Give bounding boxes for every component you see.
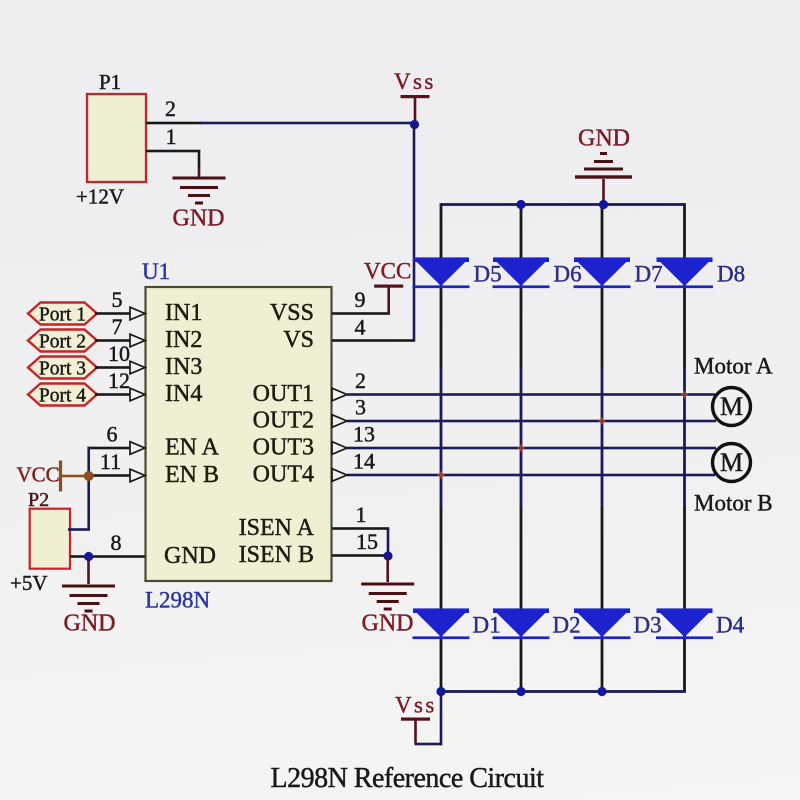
svg-text:Port 2: Port 2: [39, 332, 86, 353]
svg-text:9: 9: [355, 287, 366, 312]
svg-text:3: 3: [355, 395, 366, 420]
svg-text:IN2: IN2: [165, 327, 202, 353]
svg-text:D5: D5: [474, 262, 502, 287]
svg-text:U1: U1: [142, 259, 170, 284]
svg-text:OUT4: OUT4: [253, 462, 314, 488]
svg-text:M: M: [720, 448, 743, 477]
svg-text:D7: D7: [635, 262, 663, 287]
svg-text:OUT2: OUT2: [253, 408, 314, 434]
svg-text:8: 8: [111, 530, 122, 555]
svg-text:14: 14: [353, 449, 375, 474]
svg-text:IN1: IN1: [165, 300, 202, 326]
svg-text:M: M: [720, 392, 743, 421]
svg-text:Port 4: Port 4: [39, 386, 86, 407]
svg-text:10: 10: [108, 341, 130, 366]
svg-text:13: 13: [353, 422, 375, 447]
svg-text:2: 2: [355, 368, 366, 393]
svg-text:Port 3: Port 3: [39, 359, 86, 380]
svg-text:D3: D3: [634, 613, 662, 638]
svg-text:15: 15: [356, 529, 378, 554]
svg-text:Vss: Vss: [394, 69, 436, 94]
svg-text:L298N Reference Circuit: L298N Reference Circuit: [270, 763, 544, 794]
svg-text:VCC: VCC: [364, 259, 411, 284]
svg-text:Port 1: Port 1: [39, 305, 86, 326]
svg-text:+12V: +12V: [76, 185, 124, 209]
svg-text:EN B: EN B: [165, 462, 219, 488]
svg-text:L298N: L298N: [145, 588, 211, 613]
svg-text:VS: VS: [283, 327, 314, 353]
svg-text:D8: D8: [717, 262, 745, 287]
svg-text:+5V: +5V: [10, 571, 48, 595]
svg-text:6: 6: [107, 422, 118, 447]
svg-text:D6: D6: [554, 262, 582, 287]
svg-text:Motor B: Motor B: [694, 491, 773, 516]
svg-text:OUT3: OUT3: [253, 435, 314, 461]
svg-text:IN4: IN4: [165, 381, 202, 407]
svg-text:P2: P2: [28, 489, 49, 511]
svg-text:Motor A: Motor A: [694, 354, 773, 379]
svg-text:GND: GND: [164, 543, 216, 569]
svg-text:ISEN B: ISEN B: [239, 542, 314, 568]
svg-text:D2: D2: [553, 613, 581, 638]
svg-text:IN3: IN3: [165, 354, 202, 380]
svg-text:7: 7: [112, 314, 123, 339]
svg-text:P1: P1: [99, 70, 121, 94]
svg-text:ISEN A: ISEN A: [239, 515, 315, 541]
svg-text:5: 5: [112, 287, 123, 312]
svg-text:Vss: Vss: [395, 693, 437, 718]
svg-text:12: 12: [108, 368, 130, 393]
svg-text:GND: GND: [173, 206, 225, 232]
svg-text:D1: D1: [473, 613, 501, 638]
svg-text:D4: D4: [716, 613, 745, 638]
svg-text:4: 4: [355, 315, 366, 340]
svg-text:1: 1: [166, 124, 177, 149]
svg-text:GND: GND: [578, 126, 630, 152]
svg-text:11: 11: [100, 449, 121, 474]
svg-text:EN A: EN A: [165, 435, 220, 461]
svg-text:OUT1: OUT1: [253, 381, 314, 407]
svg-text:VCC: VCC: [17, 463, 60, 487]
svg-text:2: 2: [165, 96, 176, 121]
svg-text:VSS: VSS: [270, 300, 314, 326]
svg-text:1: 1: [356, 502, 367, 527]
svg-text:GND: GND: [362, 611, 414, 637]
svg-text:GND: GND: [64, 611, 116, 637]
